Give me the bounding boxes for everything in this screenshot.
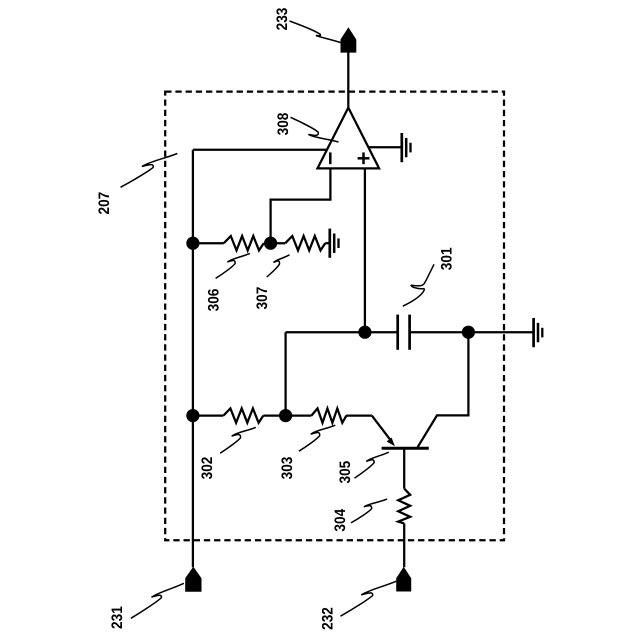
node E junction dot: [279, 409, 292, 422]
wire: resistor 303 to transistor emitter: [346, 414, 372, 416]
leader line to 305: [355, 452, 389, 478]
leader line to 304: [351, 499, 387, 523]
wire: transistor base down to resistor 304: [403, 448, 405, 488]
svg-text:307: 307: [254, 287, 271, 310]
wire: node F to resistor 302: [193, 414, 224, 416]
leader line to 301: [403, 264, 434, 306]
wire: capacitor to node D and ground: [411, 331, 533, 333]
leader line to 302: [220, 427, 256, 453]
svg-text:305: 305: [337, 460, 354, 483]
leader line to 306: [216, 253, 250, 278]
resistor 306: [224, 236, 264, 250]
resistor 304: [398, 489, 410, 524]
wire: resistor 306 to resistor 307 through node B: [264, 242, 286, 244]
wire: op-amp right side to ground: [369, 146, 401, 148]
node D junction dot: [462, 326, 475, 339]
node B junction dot: [264, 237, 277, 250]
node C junction dot: [358, 326, 371, 339]
op-amp U308 triangle: [318, 108, 380, 169]
leader line to 233: [290, 21, 344, 43]
leader line to 303: [299, 425, 335, 451]
leader line to 307: [267, 255, 290, 277]
resistor 303: [311, 408, 346, 422]
op-amp inverting input mark (-): [329, 152, 332, 164]
wire: inverting input feedback from resistor junction: [271, 168, 331, 243]
wire: node A to resistor 306: [193, 242, 224, 244]
ground at op-amp: [402, 133, 411, 162]
wire: op-amp output to terminal 233: [347, 52, 349, 108]
transistor Q305 base bar: [382, 447, 429, 450]
wire: node D down and over to transistor collector: [418, 332, 469, 447]
resistor 307: [285, 236, 325, 250]
svg-text:207: 207: [96, 192, 113, 215]
leader line to 232: [341, 581, 397, 616]
dashed block 207 boundary: [165, 92, 504, 541]
ground after resistor 307: [330, 229, 339, 258]
terminal 233: [341, 27, 357, 52]
leader line to 231: [131, 583, 184, 618]
wire: resistor 304 to terminal 232: [403, 523, 405, 567]
wire: resistor 302 to resistor 303 through node E: [263, 414, 311, 416]
svg-text:231: 231: [109, 606, 126, 629]
svg-text:306: 306: [205, 289, 222, 312]
wire: left vertical rail to terminal 231: [192, 150, 194, 567]
wire: left input rail horizontal: [193, 149, 327, 151]
capacitor C301 plates: [396, 315, 399, 350]
ground at right side node D: [534, 318, 543, 347]
terminal 231: [185, 567, 201, 592]
svg-text:233: 233: [274, 8, 291, 31]
wire: feedback vertical to node E: [284, 332, 286, 415]
svg-text:232: 232: [320, 607, 337, 630]
svg-text:303: 303: [279, 457, 296, 480]
op-amp non-inverting input mark (+): [362, 152, 365, 164]
svg-text:301: 301: [439, 247, 456, 270]
terminal 232: [396, 567, 411, 592]
svg-text:302: 302: [199, 457, 216, 480]
leader line to 207: [121, 154, 178, 188]
svg-text:304: 304: [332, 508, 349, 531]
node F junction dot: [186, 409, 199, 422]
svg-text:308: 308: [275, 113, 292, 136]
wire: capacitor row horizontal left: [286, 331, 397, 333]
node A junction dot: [186, 237, 199, 250]
wire: non-inverting input down to capacitor node: [364, 168, 366, 332]
transistor Q305 emitter lead with arrow: [372, 416, 391, 441]
leader line to 308: [291, 117, 339, 142]
resistor 302: [223, 408, 263, 422]
wire: resistor 307 to ground: [325, 242, 329, 244]
